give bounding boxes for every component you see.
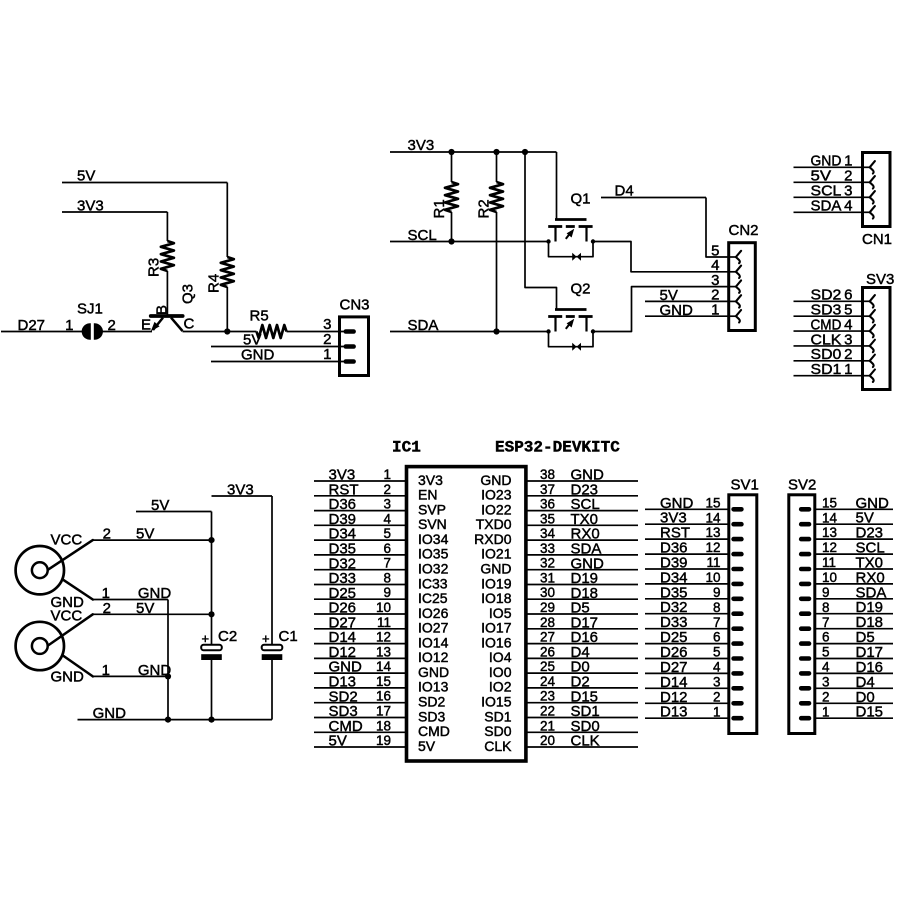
svg-text:12: 12 [705, 540, 720, 555]
node D27 / wire D27 [1, 317, 83, 334]
node SDA to SV2 pin 9 [816, 584, 893, 601]
junction GND rail/vertical [165, 717, 171, 723]
svg-text:IO27: IO27 [418, 620, 449, 636]
SV3 pin 1 [863, 375, 870, 377]
svg-text:7: 7 [383, 556, 391, 571]
IC1 pin 38 (GND) net GND [480, 467, 638, 488]
IC1 pin 13 (IO12) net D12 [314, 644, 449, 665]
connector SV2 [788, 477, 893, 734]
svg-text:10: 10 [822, 570, 837, 585]
node D18 to SV2 pin 7 [816, 614, 893, 631]
IC1 pin 3 (SVP) net D36 [314, 496, 446, 517]
svg-text:CN1: CN1 [862, 231, 892, 248]
svg-text:SJ1: SJ1 [77, 301, 103, 318]
node SDA to CN1 pin 4 [794, 198, 862, 215]
svg-text:24: 24 [540, 674, 556, 689]
SV1 pin 15 [731, 507, 743, 512]
node 5V to CN2 pin 2 [645, 287, 728, 304]
node 3V3 (middle rail) [390, 137, 557, 154]
node D23 to SV2 pin 13 [816, 525, 893, 542]
svg-text:2: 2 [822, 689, 830, 704]
junction Q2 gate/3V3 [522, 149, 528, 155]
node CMD to SV3 pin 4 [794, 316, 862, 333]
svg-text:C: C [184, 316, 195, 333]
node 5V (bottom) [136, 497, 212, 514]
SV1 pin 7 [731, 626, 743, 631]
svg-text:SD0: SD0 [484, 723, 511, 739]
node TX0 to SV2 pin 11 [816, 555, 893, 572]
node CLK to SV3 pin 3 [794, 331, 862, 348]
wire C1 to GND rail [271, 660, 273, 720]
node D32 to SV1 pin 8 [645, 599, 729, 616]
svg-text:1: 1 [65, 317, 73, 334]
svg-text:R3: R3 [146, 258, 163, 277]
svg-text:4: 4 [383, 511, 391, 526]
svg-text:3V3: 3V3 [418, 472, 443, 488]
svg-text:4: 4 [822, 660, 830, 675]
SV2 pin 15 [799, 507, 811, 512]
SV2 pin 8 [799, 611, 811, 616]
wire D4 to CN2 pin 5 [706, 198, 728, 258]
svg-text:ESP32-DEVKITC: ESP32-DEVKITC [495, 439, 620, 457]
svg-text:SVP: SVP [418, 501, 446, 517]
svg-text:10: 10 [705, 570, 720, 585]
SV2 pin 13 [799, 537, 811, 542]
svg-text:SD2: SD2 [418, 694, 445, 710]
svg-text:5V: 5V [329, 733, 347, 750]
svg-text:10: 10 [376, 600, 391, 615]
svg-text:SD1: SD1 [484, 708, 511, 724]
transistor Q1 [546, 220, 595, 261]
svg-text:IO21: IO21 [481, 546, 512, 562]
resistor R3 [146, 241, 174, 277]
IC1 pin 8 (IC33) net D33 [314, 570, 448, 591]
connector CN1 body [863, 153, 891, 227]
wire 3V3 to Q2 gate [525, 152, 557, 310]
SV3 pin 4 [863, 330, 870, 332]
IC1 pin 28 (IO17) net D17 [481, 614, 638, 635]
SV1 pin 8 [731, 611, 743, 616]
svg-text:11: 11 [706, 555, 720, 570]
svg-text:38: 38 [540, 467, 555, 482]
svg-text:3: 3 [822, 674, 830, 689]
SV2 pin 11 [799, 567, 811, 572]
SV1 pin 12 [731, 552, 743, 557]
wire Q3 collector to R5 [183, 331, 257, 333]
svg-text:20: 20 [540, 733, 555, 748]
node D19 to SV2 pin 8 [816, 599, 893, 616]
node D0 to SV2 pin 2 [816, 689, 893, 706]
IC1 pin 1 (3V3) net 3V3 [314, 467, 443, 488]
wire R1 to SCL [451, 212, 453, 242]
node D15 to SV2 pin 1 [816, 704, 893, 721]
wire 5V to R4 [226, 183, 228, 258]
svg-text:RXD0: RXD0 [474, 531, 512, 547]
svg-text:CN3: CN3 [340, 297, 370, 314]
IC1 pin 9 (IC25) net D25 [314, 585, 448, 606]
connector CN3 [323, 297, 369, 376]
svg-text:22: 22 [540, 704, 555, 719]
wire C2 to GND rail [211, 660, 213, 720]
IC1 pin 10 (IO26) net D26 [314, 600, 449, 621]
node SDA [390, 317, 549, 334]
SV2 pin 3 [799, 686, 811, 691]
node GND jack1 pin 1 [93, 585, 172, 602]
wire R3 to Q3 base [166, 271, 168, 316]
svg-text:21: 21 [540, 718, 555, 733]
CN2 pin 4 [729, 271, 736, 273]
IC1 pin 21 (SD0) net SD0 [484, 718, 638, 739]
IC1 pin 31 (IO19) net D19 [481, 570, 638, 591]
connector SV1 body [729, 495, 757, 734]
svg-text:37: 37 [540, 482, 555, 497]
svg-text:VCC: VCC [51, 608, 83, 625]
node GND to SV1 pin 15 [645, 495, 729, 512]
svg-text:EN: EN [418, 487, 437, 503]
junction 5V/jack2 [208, 611, 214, 617]
svg-text:SD3: SD3 [418, 708, 445, 724]
svg-text:7: 7 [822, 615, 830, 630]
svg-text:IO14: IO14 [418, 634, 449, 650]
svg-text:25: 25 [540, 659, 555, 674]
svg-text:5: 5 [383, 526, 391, 541]
svg-text:1: 1 [383, 467, 391, 482]
node SCL to CN1 pin 3 [794, 183, 862, 200]
node D5 to SV2 pin 6 [816, 629, 893, 646]
connector CN2 body [729, 243, 756, 331]
IC1 pin 22 (SD1) net SD1 [484, 703, 638, 724]
resistor R1 [431, 182, 458, 219]
svg-text:IO34: IO34 [418, 531, 449, 547]
svg-text:IO12: IO12 [418, 649, 449, 665]
node GND rail (bottom) [78, 705, 273, 722]
SV2 pin 7 [799, 626, 811, 631]
IC1 pin 24 (IO2) net D2 [489, 674, 638, 695]
node SD1 to SV3 pin 1 [794, 361, 862, 378]
SV2 pin 12 [799, 552, 811, 557]
SV3 pin 3 [863, 345, 870, 347]
svg-text:IO22: IO22 [481, 501, 512, 517]
svg-text:R5: R5 [250, 308, 269, 325]
svg-text:CMD: CMD [418, 723, 450, 739]
junction R1/3V3 [448, 149, 454, 155]
node D26 to SV1 pin 5 [645, 644, 729, 661]
SV1 pin 6 [731, 641, 743, 646]
svg-text:GND: GND [480, 472, 511, 488]
svg-text:IO23: IO23 [481, 487, 512, 503]
node D4 [601, 183, 706, 200]
svg-text:D15: D15 [856, 704, 884, 721]
IC1 pin 34 (RXD0) net RX0 [474, 526, 638, 547]
wire Q1 drain to CN2 pin 4 [593, 242, 728, 272]
svg-text:12: 12 [376, 630, 391, 645]
node SD3 to SV3 pin 5 [794, 302, 862, 319]
CN1 pin 2 [863, 181, 870, 183]
svg-text:34: 34 [540, 526, 556, 541]
svg-text:IO16: IO16 [481, 634, 512, 650]
SV2 pin 4 [799, 671, 811, 676]
svg-text:29: 29 [540, 600, 555, 615]
SV1 pin 2 [731, 701, 743, 706]
IC1 pin 29 (IO5) net D5 [489, 600, 638, 621]
CN1 pin 4 [863, 211, 870, 213]
SV1 pin 1 [731, 716, 743, 721]
node 5V to CN3 pin 2 [211, 332, 344, 349]
node GND jack2 pin 1 [93, 662, 172, 679]
svg-text:Q2: Q2 [571, 281, 591, 298]
CN2 pin 3 [729, 286, 736, 288]
svg-text:19: 19 [376, 733, 391, 748]
svg-text:35: 35 [540, 511, 555, 526]
svg-text:13: 13 [705, 525, 720, 540]
junction collector/R4 [224, 328, 230, 334]
connector SV1 [645, 477, 759, 734]
node D17 to SV2 pin 5 [816, 644, 893, 661]
svg-text:14: 14 [705, 510, 721, 525]
node D39 to SV1 pin 11 [645, 555, 729, 572]
wire GND vertical [167, 600, 169, 720]
svg-text:IC33: IC33 [418, 575, 448, 591]
wire SJ1 to Q3 emitter [101, 331, 153, 333]
SV1 pin 10 [731, 582, 743, 587]
node SD2 to SV3 pin 6 [794, 287, 862, 304]
junction R1/SCL [448, 238, 454, 244]
svg-text:GND: GND [418, 664, 449, 680]
svg-text:16: 16 [376, 689, 391, 704]
svg-text:11: 11 [822, 555, 836, 570]
svg-text:23: 23 [540, 689, 555, 704]
IC1 pin 36 (IO22) net SCL [481, 496, 638, 517]
SV3 pin 2 [863, 360, 870, 362]
node SCL to SV2 pin 12 [816, 540, 893, 557]
resistor R2 [476, 182, 504, 219]
svg-text:15: 15 [705, 495, 720, 510]
svg-text:TXD0: TXD0 [476, 516, 512, 532]
wire R2 top [496, 152, 498, 182]
svg-text:SV3: SV3 [866, 271, 894, 288]
svg-text:30: 30 [540, 585, 555, 600]
junction 5V/jack1 [208, 537, 214, 543]
node 5V (top-left rail) [62, 168, 227, 185]
svg-text:1: 1 [711, 302, 719, 319]
IC1 pin 6 (IO35) net D35 [314, 541, 449, 562]
svg-text:GND: GND [51, 669, 85, 686]
IC1 pin 30 (IO18) net D18 [481, 585, 638, 606]
svg-text:IO0: IO0 [489, 664, 512, 680]
IC1 pin 35 (TXD0) net TX0 [476, 511, 638, 532]
svg-text:14: 14 [376, 659, 392, 674]
node GND to SV2 pin 15 [816, 495, 893, 512]
op-amp U1 / module IC1 labels [392, 439, 620, 457]
connector X1 (supply jack 1) [16, 532, 93, 612]
svg-text:SVN: SVN [418, 516, 447, 532]
svg-text:R1: R1 [431, 199, 448, 218]
CN2 pin 5 [729, 256, 736, 258]
node 5V to CN1 pin 2 [794, 168, 862, 185]
svg-text:CN2: CN2 [729, 222, 759, 239]
svg-text:1: 1 [323, 346, 331, 363]
wire Q2 drain to CN2 pin 3 [593, 287, 728, 332]
svg-text:26: 26 [540, 644, 555, 659]
svg-text:IO2: IO2 [489, 679, 512, 695]
resistor R4 [206, 257, 234, 293]
connector SV3 body [863, 288, 891, 390]
svg-text:SV1: SV1 [731, 477, 759, 494]
node 3V3 (bottom) [212, 482, 273, 499]
IC1 pin 23 (IO15) net D15 [481, 688, 638, 709]
svg-text:32: 32 [540, 556, 555, 571]
svg-text:1: 1 [822, 704, 830, 719]
node D16 to SV2 pin 4 [816, 659, 893, 676]
node D34 to SV1 pin 10 [645, 569, 729, 586]
wire R1 top [451, 152, 453, 182]
svg-text:15: 15 [822, 495, 837, 510]
wire R4 to collector node [226, 287, 228, 332]
node D35 to SV1 pin 9 [645, 584, 729, 601]
CN1 pin 1 [863, 166, 870, 168]
node D25 to SV1 pin 6 [645, 629, 729, 646]
svg-text:Q1: Q1 [571, 191, 591, 208]
IC1 pin 17 (SD3) net SD3 [314, 703, 445, 724]
svg-text:6: 6 [822, 630, 830, 645]
SV3 pin 5 [863, 315, 870, 317]
IC1 pin 12 (IO14) net D14 [314, 629, 449, 650]
node RST to SV1 pin 13 [645, 525, 729, 542]
svg-text:SV2: SV2 [788, 477, 816, 494]
SV1 pin 14 [731, 522, 743, 527]
svg-text:IC1: IC1 [392, 439, 421, 457]
SV1 pin 9 [731, 597, 743, 602]
CN2 pin 2 [729, 300, 736, 302]
svg-text:VCC: VCC [51, 532, 83, 549]
connector SV2 body [789, 495, 815, 734]
svg-text:11: 11 [377, 615, 391, 630]
node D14 to SV1 pin 3 [645, 674, 729, 691]
SV1 pin 5 [731, 656, 743, 661]
IC1 pin 2 (EN) net RST [314, 481, 437, 502]
svg-text:3: 3 [713, 674, 721, 689]
svg-text:15: 15 [376, 674, 391, 689]
IC1 pin 27 (IO16) net D16 [481, 629, 638, 650]
node GND to CN1 pin 1 [794, 153, 862, 170]
SV3 pin 6 [863, 300, 870, 302]
node 5V to SV2 pin 14 [816, 510, 893, 527]
wire R5 to CN3 pin 3 [287, 331, 345, 333]
svg-text:B: B [153, 305, 170, 315]
svg-text:31: 31 [540, 571, 555, 586]
svg-text:IC25: IC25 [418, 590, 448, 606]
node D33 to SV1 pin 7 [645, 614, 729, 631]
node D12 to SV1 pin 2 [645, 689, 729, 706]
svg-text:IO5: IO5 [489, 605, 512, 621]
svg-text:1: 1 [713, 704, 721, 719]
svg-text:4: 4 [713, 660, 721, 675]
svg-text:3: 3 [383, 497, 391, 512]
SV1 pin 13 [731, 537, 743, 542]
junction GND rail/C2 [208, 717, 214, 723]
SV1 pin 3 [731, 686, 743, 691]
svg-text:8: 8 [713, 600, 721, 615]
svg-text:28: 28 [540, 615, 555, 630]
svg-text:IO18: IO18 [481, 590, 512, 606]
solder jumper SJ1 [65, 301, 116, 340]
capacitor C1 [262, 628, 298, 660]
svg-text:IO13: IO13 [418, 679, 449, 695]
SV2 pin 6 [799, 641, 811, 646]
IC1 pin 37 (IO23) net D23 [481, 481, 638, 502]
wire 3V3 to C1 [271, 496, 273, 645]
svg-text:8: 8 [822, 600, 830, 615]
svg-text:14: 14 [822, 510, 838, 525]
svg-text:5: 5 [822, 645, 830, 660]
svg-text:IO35: IO35 [418, 546, 449, 562]
svg-text:18: 18 [376, 718, 391, 733]
svg-text:IO17: IO17 [481, 620, 512, 636]
wire R2 to SDA [496, 212, 498, 332]
svg-text:12: 12 [822, 540, 837, 555]
SV2 pin 14 [799, 522, 811, 527]
IC1 pin 14 (GND) net GND [314, 659, 449, 680]
wire 3V3 rail to Q1 gate [556, 152, 558, 220]
wire 5V to C2 [211, 512, 213, 646]
capacitor C2 [201, 628, 237, 660]
svg-text:9: 9 [822, 585, 830, 600]
svg-text:27: 27 [540, 630, 555, 645]
node 3V3 (top-left) [62, 198, 167, 215]
svg-text:2: 2 [713, 689, 721, 704]
IC1 pin 5 (IO34) net D34 [314, 526, 449, 547]
svg-text:Q3: Q3 [180, 284, 197, 304]
transistor Q3 [141, 284, 197, 334]
svg-text:IO4: IO4 [489, 649, 512, 665]
svg-text:5V: 5V [418, 738, 436, 754]
svg-text:2: 2 [383, 482, 391, 497]
IC1 pin 18 (CMD) net CMD [314, 718, 450, 739]
IC1 pin 7 (IO32) net D32 [314, 555, 449, 576]
svg-text:5: 5 [713, 645, 721, 660]
connector CN1 [794, 153, 893, 249]
svg-text:6: 6 [713, 630, 721, 645]
svg-text:7: 7 [713, 615, 721, 630]
SV2 pin 5 [799, 656, 811, 661]
node SD0 to SV3 pin 2 [794, 346, 862, 363]
svg-text:8: 8 [383, 571, 391, 586]
junction R2/3V3 [493, 149, 499, 155]
SV2 pin 10 [799, 582, 811, 587]
node SCL [390, 227, 549, 244]
svg-text:IO15: IO15 [481, 694, 512, 710]
SV2 pin 2 [799, 701, 811, 706]
node 3V3 to SV1 pin 14 [645, 510, 729, 527]
svg-text:D13: D13 [660, 704, 688, 721]
SV2 pin 1 [799, 716, 811, 721]
node 5V jack2 pin 2 [93, 600, 212, 617]
IC1 pin 32 (GND) net GND [480, 555, 638, 576]
svg-text:13: 13 [822, 525, 837, 540]
svg-text:IO32: IO32 [418, 561, 449, 577]
IC1 pin 4 (SVN) net D39 [314, 511, 447, 532]
svg-text:CLK: CLK [484, 738, 512, 754]
transistor Q2 [546, 310, 595, 351]
module IC1 body [407, 467, 526, 761]
SV2 pin 9 [799, 597, 811, 602]
connector SV3 [794, 271, 895, 390]
IC1 pin 20 (CLK) net CLK [484, 733, 638, 754]
node D27 to SV1 pin 4 [645, 659, 729, 676]
node D4 to SV2 pin 3 [816, 674, 893, 691]
SV1 pin 4 [731, 671, 743, 676]
node D13 to SV1 pin 1 [645, 704, 729, 721]
